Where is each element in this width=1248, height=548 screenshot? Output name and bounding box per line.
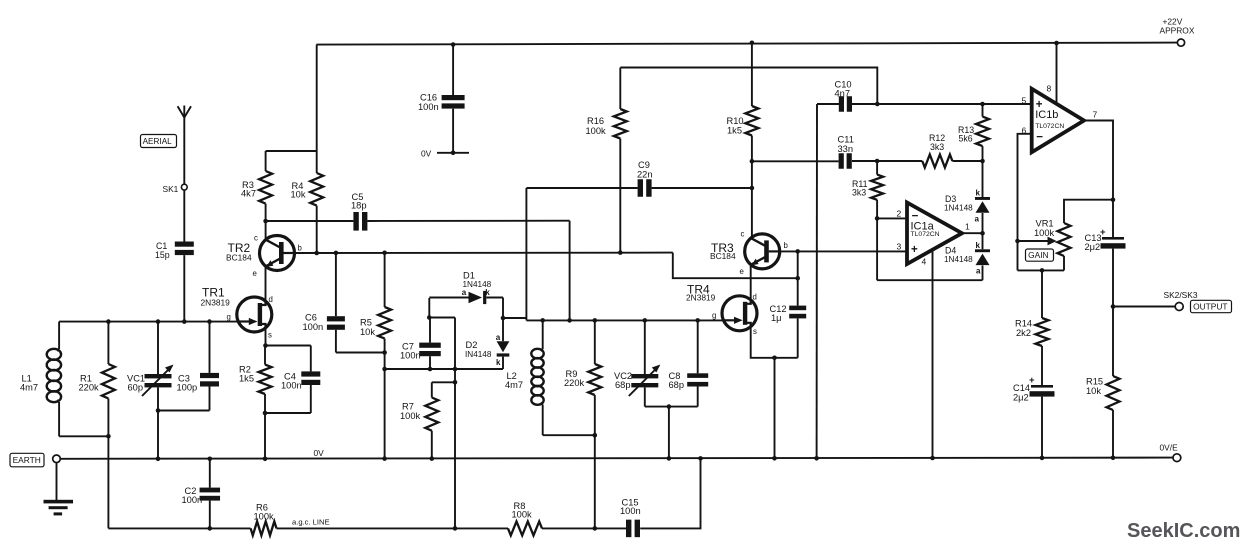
svg-text:D3: D3	[945, 194, 956, 204]
resistor R14	[1015, 270, 1049, 385]
wire output junction to SK2/SK3	[1113, 306, 1175, 308]
wire TR3 base down to C12	[797, 251, 799, 305]
node C6 stub on R5 column	[382, 350, 387, 355]
svg-text:0V/E: 0V/E	[1160, 443, 1179, 453]
wire TR2 emitter to TR1 drain	[265, 266, 267, 300]
svg-text:g: g	[712, 311, 716, 320]
node pin8 on supply rail	[1054, 41, 1059, 46]
svg-text:8: 8	[1047, 84, 1052, 94]
svg-text:10k: 10k	[1086, 386, 1101, 396]
svg-text:SK2/SK3: SK2/SK3	[1164, 290, 1198, 300]
wire C9 left riser (x526) from C9 line to TR4 gate line	[525, 188, 527, 320]
wire C9 line	[526, 187, 637, 189]
transistor TR2	[226, 221, 303, 278]
wire TR2 collector to C5	[266, 220, 354, 222]
wire a.g.c. line R6 to R8	[277, 527, 509, 529]
svg-text:a.g.c. LINE: a.g.c. LINE	[292, 518, 330, 527]
node R4 at TR2 base	[314, 251, 319, 256]
svg-text:AERIAL: AERIAL	[143, 137, 173, 146]
node TR2 collector junction	[263, 219, 268, 224]
svg-text:100k: 100k	[1034, 228, 1055, 238]
wire IC1b pin 7 output	[1084, 121, 1113, 238]
label box OUTPUT	[1191, 300, 1232, 312]
node second-rail riser on pin5 line	[875, 102, 880, 107]
wire TR3 base line to IC1a pin 3	[780, 250, 907, 252]
node C2 bottom on a.g.c. line	[208, 526, 213, 531]
node VC1 top	[156, 319, 161, 324]
node 0V rail - R2/C4 bottom	[263, 457, 268, 462]
svg-text:33n: 33n	[838, 144, 854, 154]
socket SK2/SK3 terminal	[1164, 290, 1198, 311]
resistor R16	[586, 68, 627, 253]
wire L2 bottom to R9 column	[543, 434, 595, 436]
node VC1/C3 bottom link	[156, 408, 161, 413]
resistor R8	[508, 501, 542, 535]
svg-text:4m7: 4m7	[20, 383, 38, 393]
svg-text:100n: 100n	[620, 506, 641, 516]
node R10 top on supply rail	[750, 41, 755, 46]
node R9 top	[593, 318, 598, 323]
diode D1	[429, 271, 503, 305]
node C16 bottom on 0V stub	[451, 151, 456, 156]
wire y280 (pin2 network to D4 anode)	[877, 279, 982, 281]
svg-text:100n: 100n	[418, 102, 439, 112]
svg-text:e: e	[253, 269, 257, 278]
wire C5 to TR4 gate-line riser	[367, 220, 569, 222]
svg-text:22n: 22n	[637, 170, 653, 180]
svg-text:2N3819: 2N3819	[686, 293, 716, 303]
resistor R1	[79, 322, 115, 529]
svg-text:100n: 100n	[400, 351, 421, 361]
wire TR4 gate line (second tuned circuit bus)	[526, 319, 722, 321]
node R7 stub on AGC column	[453, 380, 458, 385]
svg-text:a: a	[975, 215, 980, 224]
svg-text:100p: 100p	[177, 383, 198, 393]
svg-text:5: 5	[1022, 96, 1027, 106]
wire L1 bottom to R1 bottom	[59, 435, 108, 437]
svg-text:APPROX: APPROX	[1160, 26, 1195, 36]
transistor TR3	[710, 230, 789, 277]
svg-text:4k7: 4k7	[241, 189, 256, 199]
svg-text:100k: 100k	[512, 510, 533, 520]
svg-text:a: a	[462, 288, 467, 297]
node C7 bottom on line A	[428, 367, 433, 372]
svg-text:k: k	[485, 288, 490, 297]
resistor R2	[239, 346, 272, 414]
resistor R3	[241, 151, 272, 221]
a.g.c. line	[108, 527, 250, 529]
node R13 top on pin5 line	[980, 102, 985, 107]
resistor R15	[1086, 376, 1120, 458]
ground symbol	[44, 463, 74, 516]
svg-text:C9: C9	[638, 160, 650, 170]
svg-text:BC184: BC184	[710, 251, 736, 261]
svg-text:2: 2	[897, 209, 902, 219]
node 0V rail - IC1a pin4 ground	[930, 456, 935, 461]
wire D2 stub to x526 riser	[503, 317, 526, 319]
wire TR1 gate line (input tuned circuit bus)	[59, 321, 237, 323]
svg-text:2N3819: 2N3819	[201, 298, 231, 308]
svg-text:SeekIC.com: SeekIC.com	[1127, 520, 1240, 542]
resistor R6	[251, 503, 277, 536]
wire IC1b pin5 line	[852, 103, 1032, 105]
svg-text:220k: 220k	[564, 378, 585, 388]
resistor R5	[360, 253, 391, 459]
wire VC2-C8 bottom link	[645, 406, 698, 408]
svg-text:OUTPUT: OUTPUT	[1193, 302, 1227, 312]
node R1 top	[106, 319, 111, 324]
svg-text:k: k	[976, 189, 981, 198]
potentiometer VR1	[1034, 200, 1113, 271]
wire C9 to TR3 collector column	[652, 187, 752, 189]
socket SK1	[163, 184, 188, 194]
wire C15 to 0V rail	[640, 458, 700, 528]
svg-text:GAIN: GAIN	[1028, 250, 1048, 260]
svg-text:3k3: 3k3	[852, 188, 866, 198]
node 0V rail - C10 ground	[814, 456, 819, 461]
wire VC1-C3 bottom link	[158, 410, 210, 412]
svg-text:e: e	[740, 267, 744, 276]
node TR3 base / C12 branch	[795, 249, 800, 254]
transistor TR1	[201, 286, 273, 340]
svg-text:10k: 10k	[360, 327, 375, 337]
svg-text:IC1b: IC1b	[1035, 109, 1058, 121]
wire D1 anode junction to AGC column	[429, 317, 455, 319]
earth terminal	[53, 455, 61, 463]
svg-text:4m7: 4m7	[505, 380, 523, 390]
svg-text:100n: 100n	[303, 322, 324, 332]
wire IC1b pin 6 to VR1 bottom	[1018, 134, 1032, 271]
svg-text:2k2: 2k2	[1016, 328, 1031, 338]
node 0V rail - C14 ground	[1040, 456, 1045, 461]
svg-text:220k: 220k	[79, 383, 100, 393]
wire TR2 base line	[295, 252, 673, 254]
label box GAIN	[1026, 249, 1054, 261]
wire IC1a output pin1	[962, 232, 983, 234]
wire R11 bottom / IC1a pin2 column down to y280 wire	[876, 200, 878, 280]
svg-text:1k5: 1k5	[239, 374, 254, 384]
svg-text:100k: 100k	[254, 511, 275, 521]
svg-text:s: s	[268, 331, 272, 340]
capacitor C16	[418, 45, 465, 153]
wire TR4 source node	[751, 327, 798, 358]
wire R3-R4 top link	[266, 150, 317, 152]
svg-text:1μ: 1μ	[771, 313, 782, 323]
0V rail	[60, 458, 1173, 459]
svg-text:3: 3	[897, 242, 902, 252]
node R2/C4 bottom	[263, 411, 268, 416]
wire second rail (R16 top to C10)	[620, 68, 877, 105]
diode D4	[944, 233, 990, 280]
wire VR1 wiper arrow	[1018, 240, 1051, 242]
svg-text:BC184: BC184	[226, 253, 252, 263]
wire TR1 source node	[265, 328, 267, 345]
svg-text:0V: 0V	[314, 448, 325, 458]
svg-text:b: b	[784, 241, 789, 250]
svg-text:−: −	[1036, 132, 1043, 144]
svg-text:D4: D4	[945, 246, 956, 256]
node AGC column on line A	[453, 367, 458, 372]
capacitor C4	[281, 371, 320, 413]
wire R8 to C15	[542, 527, 626, 529]
resistor R4	[291, 151, 324, 253]
transistor TR4	[686, 283, 757, 337]
resistor R9	[564, 320, 601, 528]
wire TR4 drain to TR3 emitter	[750, 265, 752, 300]
node VR1 wiper takeoff	[1015, 239, 1020, 244]
capacitor C12	[770, 304, 807, 358]
node C5-path riser	[567, 318, 572, 323]
svg-text:7: 7	[1093, 110, 1098, 120]
node R5 at TR2 base line	[382, 251, 387, 256]
svg-text:C16: C16	[420, 93, 437, 103]
svg-text:100n: 100n	[281, 381, 302, 391]
svg-text:D2: D2	[466, 340, 478, 350]
capacitor C15	[620, 498, 641, 538]
wire C6 bottom to R5 column	[336, 352, 385, 354]
wire aerial down to SK1	[183, 118, 185, 185]
svg-text:1N4148: 1N4148	[944, 255, 973, 264]
terminal 0V/E	[1160, 443, 1181, 462]
capacitor C3	[177, 322, 220, 411]
node C8 top	[695, 318, 700, 323]
svg-text:c: c	[254, 234, 258, 243]
node 0V rail - R7 bottom	[430, 456, 435, 461]
node 0V rail - VC1 bottom	[156, 457, 161, 462]
svg-text:2μ2: 2μ2	[1085, 242, 1101, 252]
svg-text:+: +	[1029, 375, 1035, 386]
wire VC2/C8 bottom to 0V rail	[668, 407, 670, 459]
svg-text:100k: 100k	[586, 126, 607, 136]
svg-text:D1: D1	[463, 271, 475, 281]
node C11 line on TR3 collector column	[750, 159, 755, 164]
wire riser x=569 down to TR4 gate line	[569, 221, 571, 321]
wire IC1a pin 2	[877, 217, 907, 219]
capacitor C2	[182, 459, 221, 529]
resistor R10	[727, 106, 759, 136]
node 0V rail - R5 bottom	[382, 456, 387, 461]
svg-text:68p: 68p	[669, 380, 685, 390]
wire TR4 source to 0V rail	[774, 358, 776, 459]
svg-text:IN4148: IN4148	[465, 350, 492, 359]
capacitor C8	[669, 320, 709, 406]
wire D1 anode down to C7/AGC junction	[428, 298, 430, 318]
node R11 top	[875, 159, 880, 164]
capacitor C10	[817, 80, 852, 112]
svg-text:g: g	[227, 313, 231, 322]
svg-text:c: c	[741, 230, 745, 239]
svg-text:15p: 15p	[155, 250, 170, 260]
diode D3	[944, 161, 990, 233]
capacitor C1	[155, 241, 194, 322]
node 0V rail - C15 ground	[698, 456, 703, 461]
capacitor C5	[351, 192, 367, 231]
inductor L1	[20, 322, 61, 437]
wire R2 bottom to 0V rail	[264, 413, 266, 459]
svg-text:s: s	[753, 327, 757, 336]
node D1 anode / C7 / AGC column	[427, 315, 432, 320]
node TR4 source to 0V	[772, 356, 777, 361]
node AGC column joins a.g.c. line	[453, 526, 458, 531]
node L2/R9 bottom	[593, 433, 598, 438]
resistor R11	[852, 161, 883, 200]
svg-text:68p: 68p	[615, 380, 631, 390]
wire C10 ground riser x=817	[816, 104, 818, 458]
resistor R13	[958, 104, 989, 161]
node 0V rail - R15 bottom	[1111, 456, 1116, 461]
diode D2	[465, 298, 509, 370]
variable capacitor VC2	[614, 320, 660, 406]
wire R2-C4 bottom link	[265, 412, 311, 414]
node IC1a pin2 junction	[875, 216, 880, 221]
svg-text:4n7: 4n7	[835, 89, 851, 99]
node VC2 top	[643, 318, 648, 323]
op-amp IC1a	[907, 203, 962, 265]
aerial antenna symbol	[178, 106, 191, 118]
svg-text:5k6: 5k6	[959, 134, 973, 144]
capacitor C9	[637, 160, 653, 197]
wire output column to R15	[1112, 307, 1114, 377]
svg-text:+: +	[1100, 227, 1106, 238]
svg-text:10k: 10k	[291, 189, 306, 199]
svg-text:1k5: 1k5	[727, 126, 742, 136]
node 0V rail - TR4 source ground	[772, 456, 777, 461]
svg-text:R16: R16	[587, 116, 604, 126]
svg-text:k: k	[496, 358, 501, 367]
wire AGC column (D1 anode to a.g.c. line)	[454, 318, 456, 529]
wire VR1 bottom link	[1018, 269, 1065, 271]
svg-text:TL072CN: TL072CN	[911, 231, 940, 238]
capacitor C11	[752, 135, 922, 169]
resistor R7	[400, 382, 455, 458]
node aerial/C1	[182, 319, 187, 324]
inductor L2	[505, 320, 544, 435]
node C9 on TR3 collector column	[750, 186, 755, 191]
wire detector line A (R5 column to D2 cathode)	[385, 368, 503, 370]
wire R16 corner feedback line	[673, 253, 798, 279]
svg-text:d: d	[753, 293, 757, 302]
node 0V rail - C2 top	[208, 457, 213, 462]
node VR1 top on output column	[1111, 197, 1116, 202]
capacitor C6	[303, 253, 345, 353]
wire TR3 collector column (R10 / C9 node)	[751, 43, 753, 106]
wire riser from R3/R4 to top rail	[316, 45, 318, 151]
node R9 column on a.g.c. line	[593, 526, 598, 531]
variable capacitor VC1	[127, 322, 174, 459]
capacitor C13	[1085, 227, 1126, 307]
wire IC1a pin 4 to 0V rail	[932, 252, 934, 459]
wire IC1b pin 8 riser	[1056, 43, 1058, 103]
svg-text:a: a	[976, 267, 981, 276]
node L1/R1 bottom	[106, 434, 111, 439]
svg-text:b: b	[298, 244, 303, 253]
node on R16 feedback line y=278	[795, 276, 800, 281]
label box EARTH	[10, 453, 44, 467]
node R14 top	[1040, 268, 1045, 273]
node C6 at TR2 base line	[334, 251, 339, 256]
svg-text:3k3: 3k3	[930, 142, 944, 152]
node R16 at TR2 base line	[618, 250, 623, 255]
svg-text:2μ2: 2μ2	[1013, 392, 1029, 402]
op-amp IC1b	[1032, 89, 1084, 153]
node D3/D4 junction at pin1	[980, 231, 985, 236]
wire top +22V supply rail	[316, 43, 1177, 45]
svg-text:18p: 18p	[351, 201, 367, 211]
svg-text:TL072CN: TL072CN	[1035, 123, 1064, 130]
svg-text:SK1: SK1	[163, 184, 179, 194]
svg-text:1: 1	[965, 222, 970, 232]
node D2 anode to gate-line stub	[501, 316, 506, 321]
svg-text:+: +	[911, 244, 918, 256]
node VC2/C8 bottom to 0V	[667, 404, 672, 409]
capacitor C7	[400, 318, 441, 370]
svg-text:R10: R10	[727, 116, 744, 126]
wire 0V stub under C16	[437, 152, 469, 154]
svg-text:100k: 100k	[400, 411, 421, 421]
label box AERIAL	[141, 135, 177, 148]
svg-text:100n: 100n	[182, 495, 203, 505]
wire SK1 to C1	[183, 190, 185, 241]
node C3 top	[207, 319, 212, 324]
svg-text:k: k	[976, 241, 981, 250]
node TR1 source junction	[263, 343, 268, 348]
svg-text:EARTH: EARTH	[13, 455, 41, 465]
node output junction	[1111, 304, 1116, 309]
svg-text:4: 4	[922, 257, 927, 267]
svg-text:d: d	[269, 295, 273, 304]
supply terminal +22V APPROX	[1160, 17, 1195, 47]
node line A at R5 column	[382, 367, 387, 372]
node L2 top	[540, 318, 545, 323]
capacitor C14	[1013, 375, 1055, 458]
svg-text:60p: 60p	[128, 383, 144, 393]
node R12/R13/D3 junction	[980, 159, 985, 164]
svg-text:1N4148: 1N4148	[944, 204, 973, 213]
svg-text:a: a	[496, 333, 501, 342]
svg-text:0V: 0V	[421, 149, 432, 159]
node 0V rail - VC2/C8 ground	[667, 456, 672, 461]
node C16 on supply rail	[451, 42, 456, 47]
resistor R12	[922, 133, 982, 168]
